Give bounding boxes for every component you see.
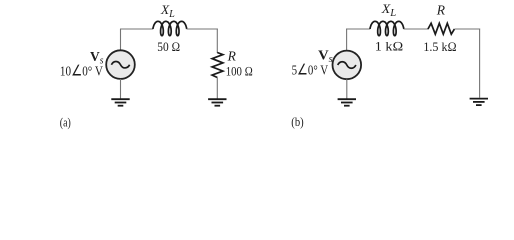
sine symbol (a) — [111, 61, 129, 67]
wire: right vertical down (b) — [479, 29, 481, 98]
wire: resistor to right corner (b) — [454, 28, 480, 30]
svg-text:XL: XL — [160, 2, 175, 20]
voltage source Vs circle (b) — [333, 51, 362, 80]
resistor R zigzag (a) — [212, 53, 223, 78]
wire: source top to top rail (b) — [346, 29, 348, 51]
inductor XL coil (a) — [153, 21, 187, 35]
wire: down to resistor R (a) — [216, 29, 218, 54]
ground below source (b) — [338, 99, 356, 106]
sine symbol (b) — [338, 62, 356, 68]
wire: top rail right segment (a) — [187, 28, 218, 30]
wire: source bottom to ground (b) — [346, 79, 348, 99]
wire: top rail from source to inductor (b) — [346, 28, 370, 30]
svg-text:50 Ω: 50 Ω — [157, 39, 180, 54]
svg-text:10∠0° V: 10∠0° V — [60, 63, 103, 79]
wire: top rail left segment (a) — [120, 28, 153, 30]
inductor XL coil (b) — [370, 21, 404, 35]
wire: inductor to resistor (b) — [404, 28, 428, 30]
wire: source top to top rail (a) — [120, 29, 122, 50]
wire: source bottom to ground (a) — [120, 79, 122, 99]
svg-text:100 Ω: 100 Ω — [226, 64, 253, 79]
svg-text:5∠0° V: 5∠0° V — [292, 63, 329, 79]
resistor R zigzag (b) — [428, 23, 455, 34]
svg-text:(b): (b) — [291, 115, 303, 129]
ground below source (a) — [111, 99, 129, 106]
ground below resistor (a) — [208, 99, 226, 106]
svg-text:R: R — [227, 48, 237, 63]
voltage source Vs circle (a) — [106, 50, 135, 79]
svg-text:1.5 kΩ: 1.5 kΩ — [423, 39, 456, 54]
svg-text:R: R — [436, 2, 446, 17]
svg-text:1 kΩ: 1 kΩ — [375, 39, 404, 54]
ground right (b) — [470, 99, 488, 106]
wire: resistor to ground (a) — [216, 78, 218, 100]
svg-text:XL: XL — [381, 1, 397, 19]
svg-text:(a): (a) — [60, 116, 71, 130]
